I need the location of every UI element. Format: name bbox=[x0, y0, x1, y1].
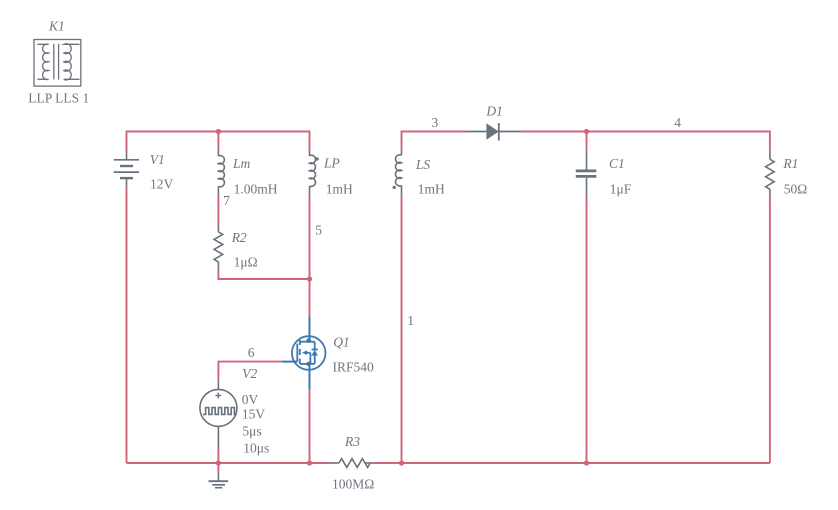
svg-text:1mH: 1mH bbox=[326, 182, 353, 197]
svg-text:IRF540: IRF540 bbox=[333, 360, 375, 375]
polarity dot LS bbox=[393, 186, 396, 189]
svg-text:12V: 12V bbox=[150, 176, 174, 191]
svg-text:Lm: Lm bbox=[232, 156, 251, 171]
svg-text:R2: R2 bbox=[231, 230, 247, 245]
svg-text:100MΩ: 100MΩ bbox=[332, 477, 374, 492]
transistor Q1 bbox=[282, 316, 326, 389]
svg-text:4: 4 bbox=[674, 115, 681, 130]
wire bottom rail right bbox=[374, 462, 770, 464]
wire C1 top stub bbox=[586, 132, 588, 151]
svg-text:15V: 15V bbox=[242, 407, 266, 422]
resistor R3 bbox=[329, 459, 374, 468]
clock source V2 bbox=[200, 379, 237, 448]
wire Q1 source to bottom rail bbox=[309, 389, 311, 463]
svg-text:1μF: 1μF bbox=[610, 181, 632, 196]
svg-text:50Ω: 50Ω bbox=[784, 181, 808, 196]
wire node to Q1 drain bbox=[309, 279, 311, 316]
svg-text:LLP LLS 1: LLP LLS 1 bbox=[28, 91, 89, 106]
svg-text:R3: R3 bbox=[344, 434, 360, 449]
wire R2 bottom to LP bottom bbox=[218, 269, 309, 279]
svg-text:1: 1 bbox=[407, 313, 414, 328]
capacitor C1 bbox=[576, 150, 597, 196]
svg-text:0V: 0V bbox=[242, 392, 259, 407]
wire R1 bottom bbox=[769, 195, 771, 463]
wire left rail V1 down bbox=[126, 187, 128, 463]
wire Lm top stub bbox=[217, 132, 219, 150]
wire ground stub bbox=[217, 463, 219, 472]
wire LP bottom to node bbox=[309, 196, 311, 280]
svg-text:3: 3 bbox=[432, 115, 439, 130]
svg-text:R1: R1 bbox=[782, 156, 798, 171]
wire top rail primary bbox=[127, 132, 310, 152]
svg-text:5μs: 5μs bbox=[242, 424, 261, 439]
resistor R2 bbox=[214, 226, 223, 269]
svg-text:1μΩ: 1μΩ bbox=[234, 255, 258, 270]
ground bbox=[209, 472, 229, 488]
svg-text:1mH: 1mH bbox=[418, 182, 445, 197]
wire secondary top rail left bbox=[402, 132, 467, 149]
junction node Q1 source R3 bbox=[307, 460, 312, 465]
svg-text:5: 5 bbox=[315, 222, 322, 237]
wire bottom rail left bbox=[127, 462, 329, 464]
wire LS bottom to rail bbox=[401, 196, 403, 463]
junction node LP R2 Q1 bbox=[307, 276, 312, 281]
svg-text:1.00mH: 1.00mH bbox=[234, 182, 278, 197]
wire gate from V2 bbox=[218, 362, 281, 380]
svg-text:LS: LS bbox=[415, 157, 431, 172]
inductor Lm bbox=[218, 150, 224, 196]
junction node LS bottom bbox=[399, 460, 404, 465]
wire Lm to R2 bbox=[217, 196, 219, 226]
svg-text:D1: D1 bbox=[485, 103, 503, 118]
junction node V2 ground bbox=[216, 460, 221, 465]
polarity dot LP bbox=[315, 157, 318, 160]
junction node C1 bottom bbox=[584, 460, 589, 465]
svg-text:V1: V1 bbox=[150, 152, 165, 167]
inductor LP bbox=[310, 151, 316, 196]
junction node at Lm top bbox=[216, 129, 221, 134]
junction node C1 top bbox=[584, 129, 589, 134]
svg-text:V2: V2 bbox=[242, 366, 257, 381]
wire V2 bottom bbox=[217, 448, 219, 463]
inductor LS bbox=[396, 149, 402, 196]
diode D1 bbox=[467, 123, 521, 141]
svg-text:K1: K1 bbox=[48, 18, 65, 33]
svg-text:7: 7 bbox=[223, 193, 230, 208]
battery V1 bbox=[114, 151, 139, 187]
wire secondary top rail right bbox=[521, 132, 770, 151]
svg-text:LP: LP bbox=[323, 155, 340, 170]
transformer K1 bbox=[34, 40, 81, 87]
svg-text:10μs: 10μs bbox=[243, 441, 269, 456]
resistor R1 bbox=[766, 150, 775, 195]
wire C1 bottom bbox=[586, 196, 588, 463]
svg-text:6: 6 bbox=[248, 345, 255, 360]
svg-text:C1: C1 bbox=[609, 156, 625, 171]
svg-text:Q1: Q1 bbox=[333, 335, 350, 350]
